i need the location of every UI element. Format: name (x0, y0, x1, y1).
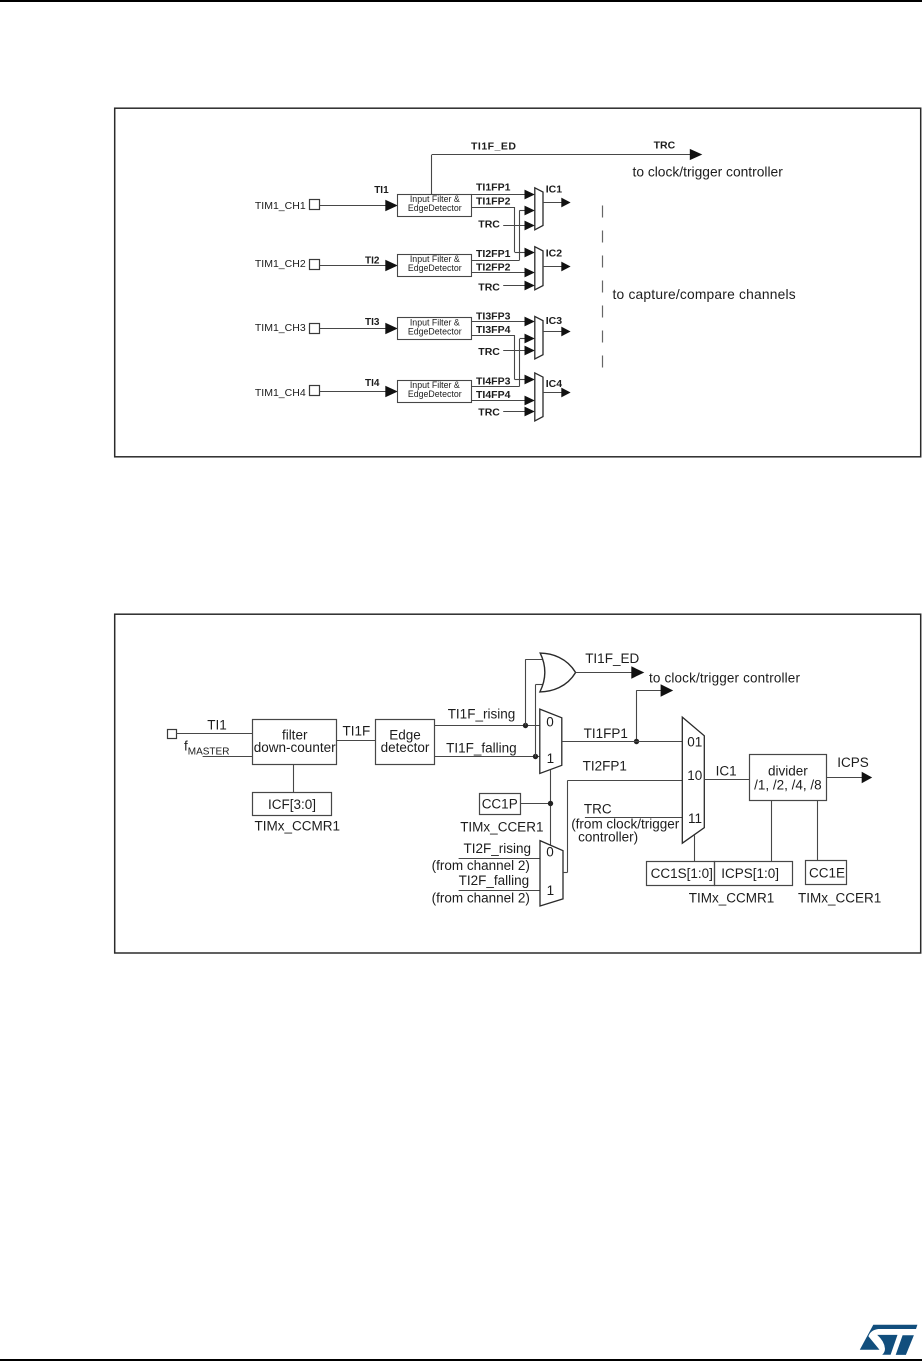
wire branch vertical (636, 690, 638, 741)
ST logo T stem (896, 1335, 914, 1355)
input pad square TIM1_CH4 (310, 386, 320, 396)
svg-text:TI1F_rising: TI1F_rising (448, 706, 516, 721)
wire cross input to mux IC1 (520, 210, 525, 212)
mux IC4 middle input triangle (525, 396, 535, 406)
wire TI2FP1 vertical (567, 781, 569, 873)
input pad square TIM1_CH1 (310, 200, 320, 210)
svg-text:TI1F_ED: TI1F_ED (471, 141, 517, 153)
wire TI1F_rising (435, 725, 540, 727)
wire TI3FP4 vertical to channel4 mux (514, 335, 516, 379)
svg-text:TIM1_CH2: TIM1_CH2 (255, 258, 306, 270)
wire TRC stub row 2 (503, 285, 524, 287)
arrowhead ICPS (862, 772, 873, 783)
wire TI1FP2 horizontal (472, 207, 515, 209)
svg-text:TIM1_CH3: TIM1_CH3 (255, 322, 306, 334)
input filter & edge detector box channel 3 (398, 318, 472, 340)
wire TI3FP3 to mux (472, 321, 525, 323)
mux IC1 bottom input triangle (525, 221, 535, 231)
wire TI1F_falling (435, 756, 540, 758)
svg-text:TI1F: TI1F (343, 723, 371, 738)
ST logo (855, 1318, 922, 1361)
svg-text:01: 01 (687, 735, 702, 750)
wire IC1 (704, 779, 749, 781)
svg-text:TI1: TI1 (374, 185, 389, 196)
wire TI1 (176, 733, 253, 735)
input filter & edge detector box channel 1 (398, 195, 472, 217)
arrowhead into filter TI3 (385, 323, 398, 335)
wire TI2 input (320, 265, 386, 267)
svg-text:TI1: TI1 (207, 717, 227, 732)
arrowhead IC2 output (561, 262, 570, 272)
svg-text:10: 10 (687, 768, 702, 783)
svg-text:TRC: TRC (478, 346, 500, 358)
CC1P box (480, 794, 521, 815)
arrowhead IC3 output (561, 327, 570, 337)
svg-text:ICPS: ICPS (837, 755, 869, 770)
wire TI3FP4 horizontal (472, 335, 515, 337)
wire TI2FP1 (567, 780, 682, 782)
input pad square TIM1_CH3 (310, 324, 320, 334)
svg-text:IC2: IC2 (546, 247, 563, 259)
arrowhead TI1F_ED (631, 666, 644, 678)
wire OR gate input bottom (536, 684, 547, 686)
svg-text:TRC: TRC (584, 802, 612, 817)
svg-text:down-counter: down-counter (254, 740, 336, 755)
svg-text:TI1FP1: TI1FP1 (476, 181, 511, 193)
OR gate U1 (540, 653, 576, 692)
figure 2 frame (115, 614, 921, 953)
ICF[3:0] box (253, 793, 332, 816)
mux IC1 (535, 188, 543, 230)
svg-text:0: 0 (546, 714, 554, 729)
svg-text:to clock/trigger controller: to clock/trigger controller (633, 164, 784, 179)
edge detector box (376, 720, 435, 765)
mux IC2 middle input triangle (525, 268, 535, 278)
svg-text:IC3: IC3 (546, 315, 563, 327)
svg-text:11: 11 (688, 811, 702, 826)
arrowhead IC1 output (561, 198, 570, 208)
svg-text:TI3FP3: TI3FP3 (476, 311, 511, 323)
svg-text:TI4: TI4 (365, 378, 380, 389)
wire TRC (585, 817, 682, 819)
wire TRC stub row 4 (503, 411, 524, 413)
svg-text:TRC: TRC (478, 407, 500, 419)
mux CC1S input select (682, 717, 704, 843)
wire TI4FP4 to mux (472, 400, 525, 402)
ICPS[1:0] box (715, 862, 793, 886)
wire TI2FP2 to mux (472, 272, 525, 274)
wire filter to ICF box (293, 764, 295, 793)
svg-text:IC4: IC4 (546, 378, 563, 390)
wire fMASTER (203, 756, 253, 758)
mux IC3 middle input triangle (525, 334, 535, 344)
top rule bar (0, 0, 922, 2)
svg-text:divider: divider (768, 764, 808, 779)
svg-text:EdgeDetector: EdgeDetector (408, 203, 462, 213)
mux IC2 bottom input triangle (525, 281, 535, 291)
mux IC3 (535, 316, 543, 359)
svg-text:TI2FP1: TI2FP1 (476, 248, 511, 260)
wire rising to OR gate (525, 660, 527, 726)
figure: capture/compare channel 1 main circuit (0, 560, 922, 980)
svg-text:CC1S[1:0]: CC1S[1:0] (651, 866, 713, 881)
wire CC1P to select (520, 803, 550, 805)
svg-text:TI2FP1: TI2FP1 (583, 759, 627, 774)
node CC1P junction (548, 801, 553, 806)
mux IC4 bottom input triangle (525, 407, 535, 417)
svg-text:TI2: TI2 (365, 255, 380, 266)
svg-text:0: 0 (546, 845, 554, 860)
svg-text:TRC: TRC (478, 218, 500, 230)
svg-text:IC1: IC1 (716, 763, 737, 778)
svg-text:EdgeDetector: EdgeDetector (408, 263, 462, 273)
svg-text:TI1F_ED: TI1F_ED (585, 651, 639, 666)
svg-text:CC1E: CC1E (809, 866, 845, 881)
wire TI1F_ED vertical from filter box 1 (431, 155, 433, 194)
svg-text:(from channel 2): (from channel 2) (432, 858, 530, 873)
wire mux2 output (563, 872, 567, 874)
wire TI2F_falling (459, 890, 540, 892)
svg-text:TI1F_falling: TI1F_falling (446, 740, 517, 755)
svg-text:ICPS[1:0]: ICPS[1:0] (721, 866, 779, 881)
node TI1F_rising junction (523, 723, 528, 728)
ST logo middle wedge (877, 1335, 897, 1355)
svg-text:EdgeDetector: EdgeDetector (408, 389, 462, 399)
svg-text:TI3FP4: TI3FP4 (476, 324, 511, 336)
mux IC2 top input triangle (525, 248, 535, 258)
wire TRC stub row 1 (503, 225, 524, 227)
figure: capture/compare channels overview (0, 0, 922, 500)
svg-text:TIMx_CCMR1: TIMx_CCMR1 (689, 890, 775, 905)
wire TI2FP1 horizontal (472, 260, 520, 262)
wire TI4 input (320, 391, 386, 393)
arrowhead branch to clock/trigger (661, 684, 674, 696)
svg-text:controller): controller) (578, 830, 638, 845)
svg-text:TI1FP1: TI1FP1 (584, 726, 628, 741)
wire TI2FP1 vertical to channel1 mux (519, 210, 521, 260)
wire divider to ICPS bits (771, 801, 773, 861)
wire cross input to mux IC2 (515, 252, 525, 254)
wire TI1 input (320, 205, 386, 207)
wire OR gate input top (525, 659, 547, 661)
wire IC4 output (543, 392, 562, 394)
svg-text:TIM1_CH1: TIM1_CH1 (255, 200, 306, 212)
wire IC2 output (543, 266, 562, 268)
wire TI2F_rising (459, 858, 540, 860)
arrowhead TRC to clock/trigger controller (690, 149, 703, 160)
svg-text:TIMx_CCMR1: TIMx_CCMR1 (255, 819, 341, 834)
wire TI1FP1 to mux (472, 194, 525, 196)
arrowhead into filter TI2 (385, 260, 398, 272)
svg-text:/1, /2, /4, /8: /1, /2, /4, /8 (754, 778, 822, 793)
mux IC3 top input triangle (525, 317, 535, 327)
arrowhead into filter TI1 (385, 200, 398, 212)
input pad square TI1 (168, 730, 177, 739)
filter down-counter box (253, 720, 337, 765)
wire divider to CC1E (817, 801, 819, 861)
svg-text:1: 1 (547, 751, 555, 766)
wire IC3 output (543, 331, 562, 333)
svg-text:1: 1 (547, 883, 555, 898)
svg-text:detector: detector (381, 740, 430, 755)
divider box (750, 755, 827, 801)
wire TI1FP2 vertical to channel2 mux (514, 207, 516, 252)
wire cross input to mux IC4 (515, 379, 525, 381)
wire CC1P select (550, 770, 552, 845)
wire ICPS output (826, 777, 862, 779)
figure 1 frame (115, 108, 921, 457)
svg-text:TRC: TRC (654, 140, 676, 152)
svg-text:TI4FP4: TI4FP4 (476, 389, 511, 401)
wire branch to clock/trigger controller (636, 690, 661, 692)
mux IC3 bottom input triangle (525, 346, 535, 356)
svg-text:TI3: TI3 (365, 317, 380, 328)
mux IC1 top input triangle (525, 190, 535, 200)
svg-text:IC1: IC1 (546, 184, 563, 196)
arrowhead IC4 output (561, 388, 570, 398)
svg-text:TI1FP2: TI1FP2 (476, 195, 511, 207)
svg-text:(from channel 2): (from channel 2) (432, 891, 530, 906)
wire IC1 output (543, 202, 562, 204)
input filter & edge detector box channel 2 (398, 255, 472, 277)
svg-text:TIM1_CH4: TIM1_CH4 (255, 387, 306, 399)
svg-text:EdgeDetector: EdgeDetector (408, 327, 462, 337)
input pad square TIM1_CH2 (310, 260, 320, 270)
wire TI1F (337, 740, 376, 742)
mux IC4 (535, 373, 543, 421)
CC1S[1:0] box (647, 862, 715, 886)
bottom rule bar (0, 1359, 922, 1361)
svg-text:ICF[3:0]: ICF[3:0] (268, 797, 316, 812)
wire CC1S select (694, 835, 696, 861)
wire TI4FP3 horizontal (472, 386, 520, 388)
mux IC4 top input triangle (525, 375, 535, 385)
CC1E box (806, 861, 847, 885)
mux IC2 (535, 247, 543, 290)
wire falling to OR gate (535, 685, 537, 757)
arrowhead into filter TI4 (385, 386, 398, 398)
wire TI4FP3 vertical to channel3 mux (519, 339, 521, 386)
svg-text:TI2F_falling: TI2F_falling (459, 873, 530, 888)
mux edge polarity select (540, 709, 562, 773)
svg-text:to clock/trigger controller: to clock/trigger controller (649, 670, 800, 685)
svg-text:to capture/compare channels: to capture/compare channels (613, 287, 796, 302)
svg-text:TI2FP2: TI2FP2 (476, 261, 511, 273)
wire TI3 input (320, 328, 386, 330)
input filter & edge detector box channel 4 (398, 381, 472, 403)
svg-text:TRC: TRC (478, 282, 500, 294)
wire TI1FP1 (562, 741, 683, 743)
node TI1F_falling junction (533, 754, 538, 759)
ST logo swoosh S (860, 1325, 918, 1350)
wire TI1F_ED output (576, 672, 632, 674)
svg-text:TI4FP3: TI4FP3 (476, 376, 511, 388)
node TI1FP1 junction (634, 739, 639, 744)
wire TI1F_ED horizontal (432, 154, 691, 156)
mux channel2 edge polarity select (540, 841, 563, 906)
svg-text:TI2F_rising: TI2F_rising (464, 841, 532, 856)
svg-text:fMASTER: fMASTER (184, 738, 229, 757)
svg-text:CC1P: CC1P (482, 797, 518, 812)
mux IC1 middle input triangle (525, 206, 535, 216)
svg-text:TIMx_CCER1: TIMx_CCER1 (460, 819, 543, 834)
wire TRC stub row 3 (503, 350, 524, 352)
dashed line to capture/compare channels (602, 206, 604, 379)
wire cross input to mux IC3 (520, 338, 525, 340)
svg-text:TIMx_CCER1: TIMx_CCER1 (798, 890, 881, 905)
